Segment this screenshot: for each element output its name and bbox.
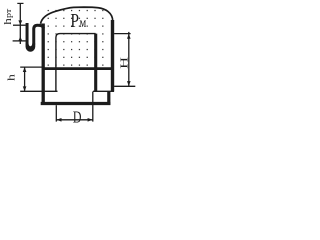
h arrow up	[23, 67, 27, 72]
h top reference line	[20, 66, 42, 68]
stipple dots (elastic medium fill)	[48, 10, 104, 66]
label Pm	[70, 9, 86, 32]
h_rt lower reference line	[13, 40, 26, 42]
D dimension line	[56, 119, 93, 121]
right container wall (thick)	[111, 20, 114, 92]
H bottom reference line	[114, 85, 135, 87]
right die wall (thick)	[107, 91, 110, 105]
left container/die wall (thick)	[42, 24, 45, 105]
svg-text:h: h	[5, 74, 17, 81]
container dome outline (thin)	[41, 7, 113, 24]
sheet hairpin fold bottom ink	[27, 44, 34, 48]
h dimension line	[24, 67, 26, 91]
label H (rotated)	[119, 57, 131, 69]
label D	[73, 108, 82, 127]
sheet hairpin fold (left rib)	[27, 23, 43, 50]
D arrow left	[57, 118, 62, 122]
die bottom slab (thick)	[41, 102, 111, 105]
right cup wall (thick)	[94, 34, 97, 92]
D extension line right	[92, 92, 94, 122]
die top line left	[20, 90, 57, 92]
h_rt upper reference line	[13, 24, 26, 26]
die top line right	[93, 90, 114, 92]
svg-text:Н: Н	[119, 57, 131, 69]
tube inner outline (thin)	[56, 34, 96, 92]
label h_rt (rotated)	[1, 9, 14, 25]
D arrow right	[88, 118, 93, 122]
h_rt arrow down	[18, 20, 22, 25]
svg-text:D: D	[73, 108, 82, 127]
h_rt dimension vertical line	[19, 3, 21, 44]
h arrow down	[23, 86, 27, 91]
D extension line left	[55, 105, 57, 121]
h_rt top tick	[17, 2, 23, 4]
label h (rotated)	[5, 74, 17, 81]
H arrow up	[127, 34, 131, 39]
H top reference line	[114, 33, 131, 35]
H dimension line	[128, 32, 130, 86]
h_rt arrow up	[18, 37, 22, 41]
H arrow down	[127, 81, 131, 86]
sheet flange horizontal (thick)	[42, 67, 113, 70]
